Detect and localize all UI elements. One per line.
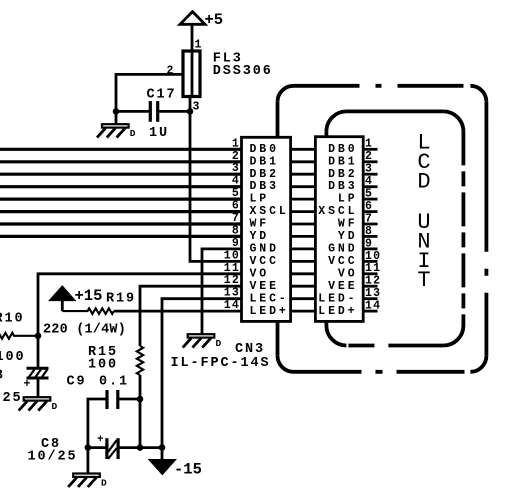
- svg-text:DB0: DB0: [250, 143, 279, 156]
- label C8 10/25: [28, 437, 78, 465]
- svg-text:VO: VO: [250, 267, 270, 280]
- wire CN3 to LCD pin 3: [291, 173, 316, 176]
- svg-text:VEE: VEE: [328, 280, 357, 293]
- pin stub 11 (LCD): [363, 272, 377, 275]
- wire CN3 to LCD pin 9: [291, 247, 316, 250]
- svg-text:XSCL: XSCL: [250, 205, 289, 218]
- wire data bus line 5: [0, 198, 242, 201]
- resistor R19 on LED+ line: [62, 308, 114, 314]
- wire CN3 pin 9 GND to ground: [202, 249, 242, 334]
- node junction C9 lead / C8 / ground: [85, 444, 92, 451]
- connector CN3 body: [242, 137, 291, 321]
- svg-text:VO: VO: [338, 267, 358, 280]
- svg-text:T: T: [417, 268, 430, 293]
- resistor R15: [137, 346, 143, 375]
- svg-text:R19: R19: [106, 292, 136, 307]
- svg-text:DB1: DB1: [328, 155, 357, 168]
- svg-text:4: 4: [232, 175, 240, 188]
- svg-text:WF: WF: [338, 218, 358, 231]
- svg-text:13: 13: [224, 287, 240, 300]
- wire FL3 pin 2 to ground: [116, 74, 183, 124]
- wire data bus line 3: [0, 173, 242, 176]
- pin stub 9 (LCD): [363, 247, 377, 250]
- node junction R15 / -15 rail: [137, 444, 144, 451]
- svg-text:14: 14: [224, 299, 240, 312]
- resistor R10: [0, 333, 38, 339]
- label R15 100: [88, 345, 118, 373]
- svg-text:D: D: [130, 128, 136, 139]
- svg-text:DSS306: DSS306: [213, 64, 273, 79]
- svg-text:13: 13: [365, 287, 381, 300]
- svg-text:12: 12: [365, 275, 381, 288]
- svg-text:3: 3: [232, 162, 240, 175]
- svg-text:D: D: [101, 477, 107, 488]
- wire CN3 pin 13 LEC- to -15: [162, 299, 242, 460]
- svg-text:11: 11: [224, 262, 240, 275]
- wire FL3 pin 3 down: [189, 97, 192, 112]
- svg-text:+5: +5: [205, 11, 224, 29]
- svg-text:GND: GND: [250, 243, 279, 256]
- svg-text:10: 10: [224, 249, 240, 262]
- svg-text:+: +: [24, 378, 31, 391]
- svg-text:DB3: DB3: [328, 180, 357, 193]
- wire data bus line 4: [0, 185, 242, 188]
- pin stub 14 (LCD): [363, 310, 377, 313]
- svg-text:-15: -15: [174, 461, 202, 479]
- svg-text:10/25: 10/25: [28, 450, 78, 465]
- node junction VO/R10: [35, 333, 42, 340]
- wire CN3 to LCD pin 4: [291, 185, 316, 188]
- svg-text:D: D: [52, 401, 58, 412]
- svg-text:5: 5: [365, 188, 373, 201]
- capacitor C9: [88, 390, 140, 448]
- svg-text:7: 7: [232, 212, 240, 225]
- wire CN3 to LCD pin 2: [291, 160, 316, 163]
- svg-text:12: 12: [224, 274, 240, 287]
- svg-text:WF: WF: [250, 218, 270, 231]
- pin stub 7 (LCD): [363, 223, 377, 226]
- svg-text:8: 8: [365, 225, 373, 238]
- svg-text:6: 6: [232, 200, 240, 213]
- svg-text:9: 9: [365, 237, 373, 250]
- svg-text:14: 14: [365, 300, 381, 313]
- svg-text:CN3: CN3: [235, 342, 265, 357]
- wire CN3 pin 12 VEE down: [140, 286, 242, 346]
- node junction LEC- / -15 rail: [159, 444, 166, 451]
- wire VCC from FL3 pin 3 to CN3 pin 10: [190, 111, 242, 261]
- svg-text:DB2: DB2: [250, 168, 279, 181]
- svg-text:XSCL: XSCL: [318, 205, 357, 218]
- svg-text:2: 2: [232, 150, 240, 163]
- svg-text:D: D: [216, 338, 222, 349]
- pin stub 3 (LCD): [363, 173, 377, 176]
- capacitor electrolytic (left column): [24, 368, 49, 391]
- svg-text:LP: LP: [338, 193, 358, 206]
- capacitor C8 electrolytic: [97, 434, 118, 459]
- wire CN3 to LCD pin 10: [291, 260, 316, 263]
- svg-text:1: 1: [365, 138, 373, 151]
- svg-text:220 (1/4W): 220 (1/4W): [43, 323, 126, 338]
- svg-text:9: 9: [232, 237, 240, 250]
- LCD unit inner dash-dot frame: [326, 111, 463, 345]
- ground G1 near C17: [97, 124, 136, 139]
- node junction FL3 pin2/C17: [113, 108, 120, 115]
- svg-text:D: D: [417, 169, 430, 194]
- svg-text:7: 7: [365, 212, 373, 225]
- power -15 supply symbol: [149, 460, 202, 479]
- svg-text:YD: YD: [250, 230, 270, 243]
- svg-text:LP: LP: [250, 193, 270, 206]
- pin stub 12 (LCD): [363, 285, 377, 288]
- svg-text:VEE: VEE: [250, 280, 279, 293]
- wire data bus line 2: [0, 160, 242, 163]
- ground G3 left column: [19, 397, 58, 412]
- wire CN3 pin 11 VO to R10 node: [38, 274, 242, 336]
- wire CN3 to LCD pin 5: [291, 198, 316, 201]
- label FL3 DSS306: [213, 52, 273, 79]
- wire CN3 to LCD pin 6: [291, 210, 316, 213]
- svg-text:IL-FPC-14S: IL-FPC-14S: [171, 356, 271, 371]
- power +15 supply symbol: [50, 286, 103, 305]
- svg-text:1: 1: [232, 137, 240, 150]
- svg-text:4: 4: [365, 175, 373, 188]
- pin stub 10 (LCD): [363, 260, 377, 263]
- svg-text:2: 2: [365, 150, 373, 163]
- pin stub 4 (LCD): [363, 185, 377, 188]
- filter FL3 body: [183, 51, 200, 97]
- pin stub 1 (LCD): [363, 148, 377, 151]
- pin stub 8 (LCD): [363, 235, 377, 238]
- wire CN3 to LCD pin 7: [291, 223, 316, 226]
- pin stub 5 (LCD): [363, 198, 377, 201]
- wire R10 node to capacitor: [37, 336, 40, 368]
- wire data bus line 7: [0, 222, 242, 225]
- wire +15 stem: [61, 300, 64, 311]
- svg-text:DB0: DB0: [328, 143, 357, 156]
- ground G2 near CN3: [183, 334, 222, 349]
- svg-text:11: 11: [365, 262, 381, 275]
- svg-text:VCC: VCC: [328, 255, 357, 268]
- svg-text:DB3: DB3: [250, 180, 279, 193]
- svg-text:LED-: LED-: [318, 292, 357, 305]
- wire +5 to FL3 pin 1: [191, 24, 194, 51]
- wire data bus line 8: [0, 235, 242, 238]
- wire CN3 to LCD pin 13: [291, 297, 316, 300]
- wire CN3 to LCD pin 12: [291, 285, 316, 288]
- wire data bus line 1: [0, 148, 242, 151]
- wire data bus line 6: [0, 210, 242, 213]
- capacitor C17: [116, 101, 190, 122]
- power +5 supply symbol: [180, 11, 223, 29]
- svg-text:8: 8: [232, 224, 240, 237]
- ground G4 bottom: [68, 474, 107, 489]
- svg-text:3: 3: [365, 163, 373, 176]
- label C9 0.1: [67, 375, 130, 390]
- LCD unit outer dash-dot enclosure: [278, 86, 487, 372]
- wire CN3 to LCD pin 11: [291, 272, 316, 275]
- svg-text:GND: GND: [328, 243, 357, 256]
- pin stub 6 (LCD): [363, 210, 377, 213]
- wire R15 to -15 rail: [139, 375, 142, 448]
- wire -15 rail: [88, 446, 163, 449]
- wire CN3 to LCD pin 14: [291, 310, 316, 313]
- svg-text:DB1: DB1: [250, 155, 279, 168]
- svg-text:3: 3: [193, 101, 201, 114]
- svg-text:YD: YD: [338, 230, 358, 243]
- svg-text:LED+: LED+: [250, 305, 289, 318]
- wire CN3 to LCD pin 8: [291, 235, 316, 238]
- svg-text:LED+: LED+: [318, 305, 357, 318]
- label LCD UNIT: [417, 131, 430, 293]
- connector LCD unit body: [315, 137, 363, 322]
- wire capacitor to ground: [37, 379, 40, 398]
- svg-text:10: 10: [365, 250, 381, 263]
- node junction C9/R15: [137, 396, 144, 403]
- wire C8 to ground: [87, 448, 90, 474]
- pin stub 13 (LCD): [363, 297, 377, 300]
- svg-text:100: 100: [88, 358, 118, 373]
- svg-text:C9: C9: [67, 375, 87, 390]
- svg-text:LEC-: LEC-: [250, 292, 289, 305]
- pin stub 2 (LCD): [363, 160, 377, 163]
- wire R19 to CN3 pin 14 LED+: [114, 310, 242, 313]
- svg-text:10/25: 10/25: [0, 391, 23, 406]
- wire CN3 to LCD pin 1: [291, 148, 316, 151]
- svg-text:VCC: VCC: [250, 255, 279, 268]
- svg-text:C17: C17: [147, 88, 177, 103]
- svg-text:5: 5: [232, 187, 240, 200]
- svg-text:100: 100: [0, 350, 26, 365]
- svg-text:0.1: 0.1: [99, 375, 129, 390]
- svg-text:R10: R10: [0, 312, 25, 327]
- svg-text:+15: +15: [75, 287, 103, 305]
- node junction FL3 pin3/C17/VCC: [187, 108, 194, 115]
- svg-text:6: 6: [365, 200, 373, 213]
- svg-text:1U: 1U: [149, 126, 169, 141]
- svg-text:+: +: [97, 434, 104, 446]
- svg-text:8: 8: [0, 369, 5, 384]
- label C17 1U: [147, 88, 177, 142]
- svg-text:DB2: DB2: [328, 168, 357, 181]
